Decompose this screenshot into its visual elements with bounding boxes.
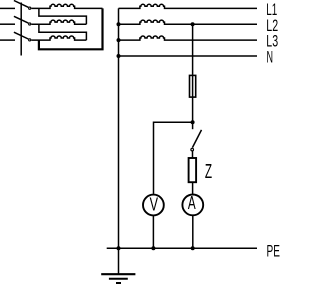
switch S contact (191, 148, 194, 151)
node PE-voltmeter junction (151, 246, 155, 250)
wire left bus vertical (118, 8, 120, 273)
node L2 tap junction (191, 22, 195, 26)
svg-text:N: N (267, 48, 274, 67)
wire ammeter to PE (192, 215, 194, 248)
ammeter A (182, 195, 203, 216)
wire W1 return to phase 3 (delta, thick right bar and bottom rail) (39, 8, 103, 49)
wire W2 return to phase 1 (delta) (39, 8, 87, 24)
wire phase-3 left stub (0, 39, 15, 41)
node PE-ammeter junction (191, 246, 195, 250)
svg-text:Z: Z (205, 160, 212, 183)
inductor on L1 with line (119, 4, 258, 8)
svg-text:PE: PE (267, 241, 280, 260)
voltmeter V (143, 195, 164, 216)
node bus-N junction (117, 54, 121, 58)
wire voltmeter to PE (152, 216, 154, 249)
wire fuse to junction (192, 98, 194, 122)
switch Q1 pole-3 contact (29, 39, 31, 41)
node PE-bus junction (117, 246, 121, 250)
switch Q1 pole-3 blade (14, 32, 28, 39)
wire PE line (107, 247, 257, 249)
winding W3 (transformer, phase 3) (31, 36, 86, 40)
wire switch to Z (192, 151, 194, 158)
wire Z to ammeter (192, 182, 194, 194)
switch Q1 linkage bar (20, 3, 22, 56)
wire phase-2 left stub (0, 23, 15, 25)
switch Q1 pole-2 blade (14, 16, 28, 23)
node bus-L3 junction (117, 38, 121, 42)
wire W3 return to phase 2 (delta) (39, 24, 87, 40)
inductor on L2 with line (119, 20, 258, 24)
winding W1 (transformer, phase 1) (31, 4, 102, 8)
switch Q1 pole-1 blade (14, 1, 28, 8)
switch S blade (192, 130, 201, 148)
inductor on L3 with line (119, 36, 258, 40)
wire N line (119, 55, 258, 57)
wire L2 tap down to fuse (192, 24, 194, 74)
svg-text:A: A (188, 193, 196, 213)
fuse F1 (190, 75, 196, 97)
node measuring junction (191, 120, 195, 124)
switch Q1 pole-2 contact (29, 23, 31, 25)
wire branch to voltmeter (154, 122, 193, 194)
winding W2 (transformer, phase 2) (31, 20, 86, 24)
ground symbol (101, 273, 135, 275)
wire through fuse (192, 75, 194, 98)
svg-text:V: V (150, 195, 158, 215)
wire junction to switch (192, 122, 194, 129)
switch Q1 pole-1 contact (29, 7, 31, 9)
node bus-L2 junction (117, 22, 121, 26)
impedance Z (189, 158, 197, 182)
wire phase-1 left stub (0, 7, 15, 9)
